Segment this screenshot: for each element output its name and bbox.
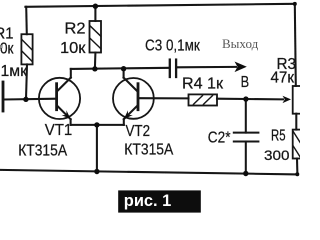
svg-text:R4 1к: R4 1к [182,76,224,93]
svg-text:C2*: C2* [208,130,231,147]
svg-text:С3 0,1мк: С3 0,1мк [145,37,201,54]
svg-text:КТ315А: КТ315А [124,142,173,159]
svg-text:VT2: VT2 [126,123,151,140]
svg-text:R5: R5 [271,128,286,145]
svg-text:47к: 47к [271,70,295,87]
svg-text:1мк: 1мк [1,63,28,80]
svg-text:0к: 0к [0,41,14,58]
svg-text:рис. 1: рис. 1 [124,191,172,210]
svg-text:R2: R2 [65,21,86,38]
svg-text:Выход: Выход [222,36,259,51]
svg-text:300: 300 [264,147,290,163]
svg-text:В: В [241,74,250,91]
svg-text:VT1: VT1 [45,122,73,139]
svg-text:КТ315А: КТ315А [18,142,67,159]
svg-text:10к: 10к [60,40,87,57]
